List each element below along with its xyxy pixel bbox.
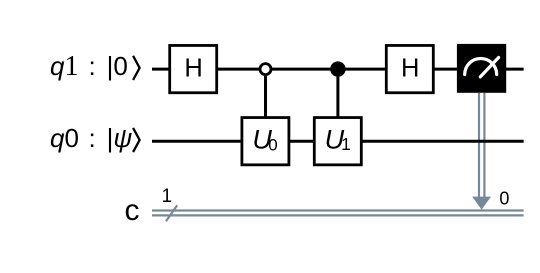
svg-text:|: | — [107, 123, 114, 153]
gate H (second) — [386, 45, 433, 92]
label q0 : |psi> — [50, 123, 132, 153]
svg-text:c: c — [125, 194, 140, 227]
control line for U1 — [336, 69, 339, 118]
measure arrowhead — [472, 197, 491, 210]
control line for U0 — [264, 69, 267, 118]
gate H (first) — [170, 45, 217, 92]
svg-text:H: H — [184, 54, 202, 82]
wire q0 — [152, 140, 524, 143]
classical bundle slash — [166, 205, 177, 221]
filled control on q1 — [330, 61, 345, 76]
ket bracket for q0 — [133, 128, 140, 152]
classical wire c (double line) — [152, 211, 524, 216]
wire q1 — [152, 68, 524, 71]
ket bracket for q1 — [133, 56, 140, 80]
label q1 : |0> — [50, 51, 128, 82]
open control (0-control) on q1 — [260, 64, 271, 75]
svg-text:H: H — [401, 54, 419, 82]
svg-text:ψ: ψ — [113, 123, 132, 153]
svg-text:q1: q1 — [50, 51, 78, 82]
gate U1 — [314, 118, 361, 165]
svg-text::: : — [89, 51, 96, 81]
svg-text:1: 1 — [341, 134, 351, 154]
measure classical double line (vertical) — [479, 93, 484, 198]
svg-text:0: 0 — [499, 188, 509, 208]
svg-text:|: | — [107, 51, 114, 81]
measure gate box — [457, 44, 506, 93]
svg-text:0: 0 — [113, 51, 127, 81]
meter needle — [480, 58, 498, 77]
svg-text:1: 1 — [162, 186, 173, 207]
svg-text:q0: q0 — [50, 123, 79, 153]
svg-text::: : — [89, 123, 96, 153]
svg-text:0: 0 — [268, 136, 277, 155]
gate U0 — [242, 118, 289, 165]
meter arc — [465, 59, 497, 75]
